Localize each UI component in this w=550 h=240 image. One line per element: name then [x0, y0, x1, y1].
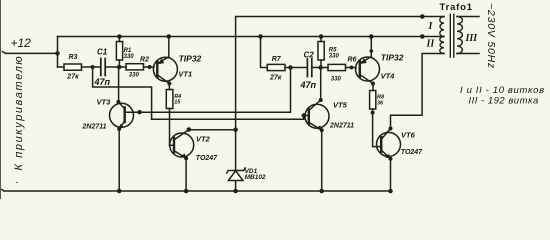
junction VT4 collector pin [371, 82, 375, 86]
label R7 value [269, 56, 282, 81]
svg-text:47п: 47п [94, 77, 111, 87]
transistor VT3 (2N2711 NPN, mirrored) [110, 67, 140, 191]
label winding II [426, 39, 436, 50]
svg-text:330: 330 [329, 54, 340, 60]
transistor VT5 (2N2711 NPN) [304, 68, 329, 192]
junction node A [117, 65, 122, 70]
wire VT2 collector to riser [189, 129, 236, 131]
label VT2 [196, 135, 218, 162]
junction R7 riser on rail [258, 34, 263, 39]
transistor VT1 (TIP32 PNP) [153, 37, 177, 84]
label C1 value [94, 48, 111, 87]
wire transformer winding I riser [236, 17, 444, 130]
border left edge artifact [0, 0, 2, 199]
junction R8 bottom pin [371, 111, 375, 115]
label VT4 [381, 53, 404, 81]
junction VT2 emitter pin [184, 156, 188, 160]
svg-text:Trafo1: Trafo1 [440, 2, 473, 13]
svg-text:2N2711: 2N2711 [82, 124, 107, 131]
label winding I [428, 21, 434, 32]
svg-text:15: 15 [174, 99, 181, 105]
junction winding I start [420, 14, 425, 19]
resistor R1 [116, 37, 122, 68]
transistor VT2 (TO247 NPN) [170, 130, 194, 192]
svg-text:~230V 50Hz: ~230V 50Hz [485, 3, 497, 69]
transistor VT4 (TIP32 PNP) [356, 37, 380, 84]
junction VT1 collector pin [167, 82, 171, 86]
svg-text:R5: R5 [329, 48, 337, 54]
wire cross line B [152, 116, 304, 120]
wire cross line A [140, 68, 291, 113]
svg-text:TO247: TO247 [401, 149, 423, 156]
label VT5 [329, 101, 354, 130]
label Trafo1 [440, 2, 473, 13]
junction VT5 collector pin [319, 98, 323, 102]
junction C2/R5/R6 node [318, 65, 323, 70]
resistor R7 [267, 64, 307, 70]
junction VT5 emitter pin [320, 128, 324, 132]
label winding turns note 1 [460, 85, 545, 96]
junction VT1 emitter on rail [167, 34, 172, 39]
svg-text:I и II - 10 витков: I и II - 10 витков [460, 85, 545, 96]
svg-text:27к: 27к [66, 74, 79, 81]
junction VT2 emitter on bottom rail [184, 189, 189, 194]
svg-text:330: 330 [124, 54, 135, 60]
label R4 value [174, 94, 181, 106]
label R2 value [129, 57, 149, 79]
wire top +12 rail [58, 36, 445, 38]
junction VT6 emitter on bottom rail [388, 189, 393, 194]
junction VT6 emitter pin [389, 157, 393, 161]
svg-text:VT3: VT3 [97, 98, 112, 107]
svg-text:VT2: VT2 [196, 135, 211, 144]
junction +12 input [55, 51, 60, 56]
label VT1 [178, 54, 201, 79]
junction VT3 base pin [137, 110, 142, 115]
label R6 value [331, 57, 357, 83]
junction VT2 collector pin [187, 127, 192, 132]
svg-text:C2: C2 [304, 51, 315, 60]
svg-text:+12: +12 [11, 36, 32, 50]
wire +12 input [6, 52, 58, 54]
svg-text:C1: C1 [97, 48, 108, 57]
label output voltage [485, 3, 497, 69]
svg-text:R1: R1 [124, 48, 132, 54]
svg-text:R7: R7 [272, 56, 282, 63]
label R8 value [377, 95, 385, 107]
label +12 [11, 36, 32, 50]
label R3 value [66, 54, 79, 80]
svg-text:R6: R6 [348, 57, 357, 64]
junction VT4 emitter pin [370, 49, 374, 53]
resistor R8 [370, 84, 376, 147]
junction R7/C2 node [288, 65, 293, 70]
svg-text:330: 330 [129, 73, 140, 79]
label VT3 [82, 98, 112, 131]
label VT6 [401, 130, 423, 156]
junction R5 top on rail [319, 34, 324, 39]
label minus mark [16, 178, 19, 187]
svg-text:К прикуривателю: К прикуривателю [13, 55, 25, 171]
transistor VT6 (TO247 NPN) [373, 54, 444, 192]
junction node B (R3/C1) [91, 65, 95, 69]
label C2 value [300, 51, 317, 91]
resistor R6 [321, 64, 356, 70]
svg-text:III - 192 витка: III - 192 витка [469, 96, 539, 107]
resistor R3 [58, 64, 101, 70]
label cigarette lighter [13, 55, 25, 171]
junction VT3 collector pin [116, 100, 120, 104]
svg-text:TO247: TO247 [196, 155, 218, 162]
node minus terminal [2, 189, 4, 191]
capacitor C1 [101, 59, 119, 76]
junction R1 top [117, 34, 122, 39]
junction VT6 collector pin [389, 127, 393, 131]
label VD1 value [245, 168, 266, 181]
svg-text:VT6: VT6 [401, 130, 416, 139]
svg-text:27к: 27к [269, 74, 282, 81]
svg-text:R3: R3 [69, 54, 78, 61]
resistor R2 [119, 64, 154, 70]
junction VT3 emitter pin [117, 127, 121, 131]
label R1 value [124, 48, 135, 60]
svg-text:-: - [16, 178, 19, 187]
transformer T1 winding I and II (primary) [440, 17, 444, 54]
svg-text:VT5: VT5 [333, 101, 348, 110]
svg-text:330: 330 [331, 77, 342, 83]
junction VT1 base [148, 65, 152, 69]
transformer T1 core [450, 15, 454, 58]
svg-text:2N2711: 2N2711 [329, 123, 354, 130]
junction VT4 base [350, 66, 354, 70]
resistor R4 [166, 84, 173, 146]
svg-text:II: II [426, 39, 436, 50]
svg-text:TIP32: TIP32 [381, 53, 404, 63]
svg-text:R2: R2 [140, 57, 149, 64]
wire R7 riser from rail [261, 37, 268, 68]
svg-text:VT1: VT1 [178, 70, 192, 79]
label winding turns note 2 [469, 96, 539, 107]
svg-text:TIP32: TIP32 [179, 54, 202, 64]
node +12 input terminal [3, 52, 6, 54]
junction VD1 anode on bottom rail [233, 189, 238, 194]
svg-text:36: 36 [377, 101, 384, 107]
wire bottom rail [4, 190, 391, 192]
junction VT5 emitter on bottom rail [319, 189, 324, 194]
diode VD1 (protection) [227, 130, 246, 191]
wire node B to cross line B [93, 67, 152, 119]
capacitor C2 [307, 59, 320, 77]
svg-text:I: I [428, 21, 434, 32]
svg-text:VT4: VT4 [381, 71, 396, 80]
junction winding II start / center tap [420, 34, 425, 39]
junction VT4 emitter on rail [369, 34, 374, 39]
transformer T1 winding III (secondary) [457, 17, 479, 54]
junction VT5 base pin [302, 113, 307, 118]
svg-text:47п: 47п [300, 80, 317, 90]
junction VT3 emitter on bottom rail [117, 189, 122, 194]
svg-text:III: III [465, 33, 479, 44]
label R5 value [329, 48, 340, 60]
resistor R5 [318, 37, 324, 68]
label winding III [465, 33, 479, 44]
wire +12 vertical riser [57, 37, 59, 68]
svg-text:МВ102: МВ102 [245, 174, 266, 181]
junction VT2 collector node [233, 127, 238, 132]
